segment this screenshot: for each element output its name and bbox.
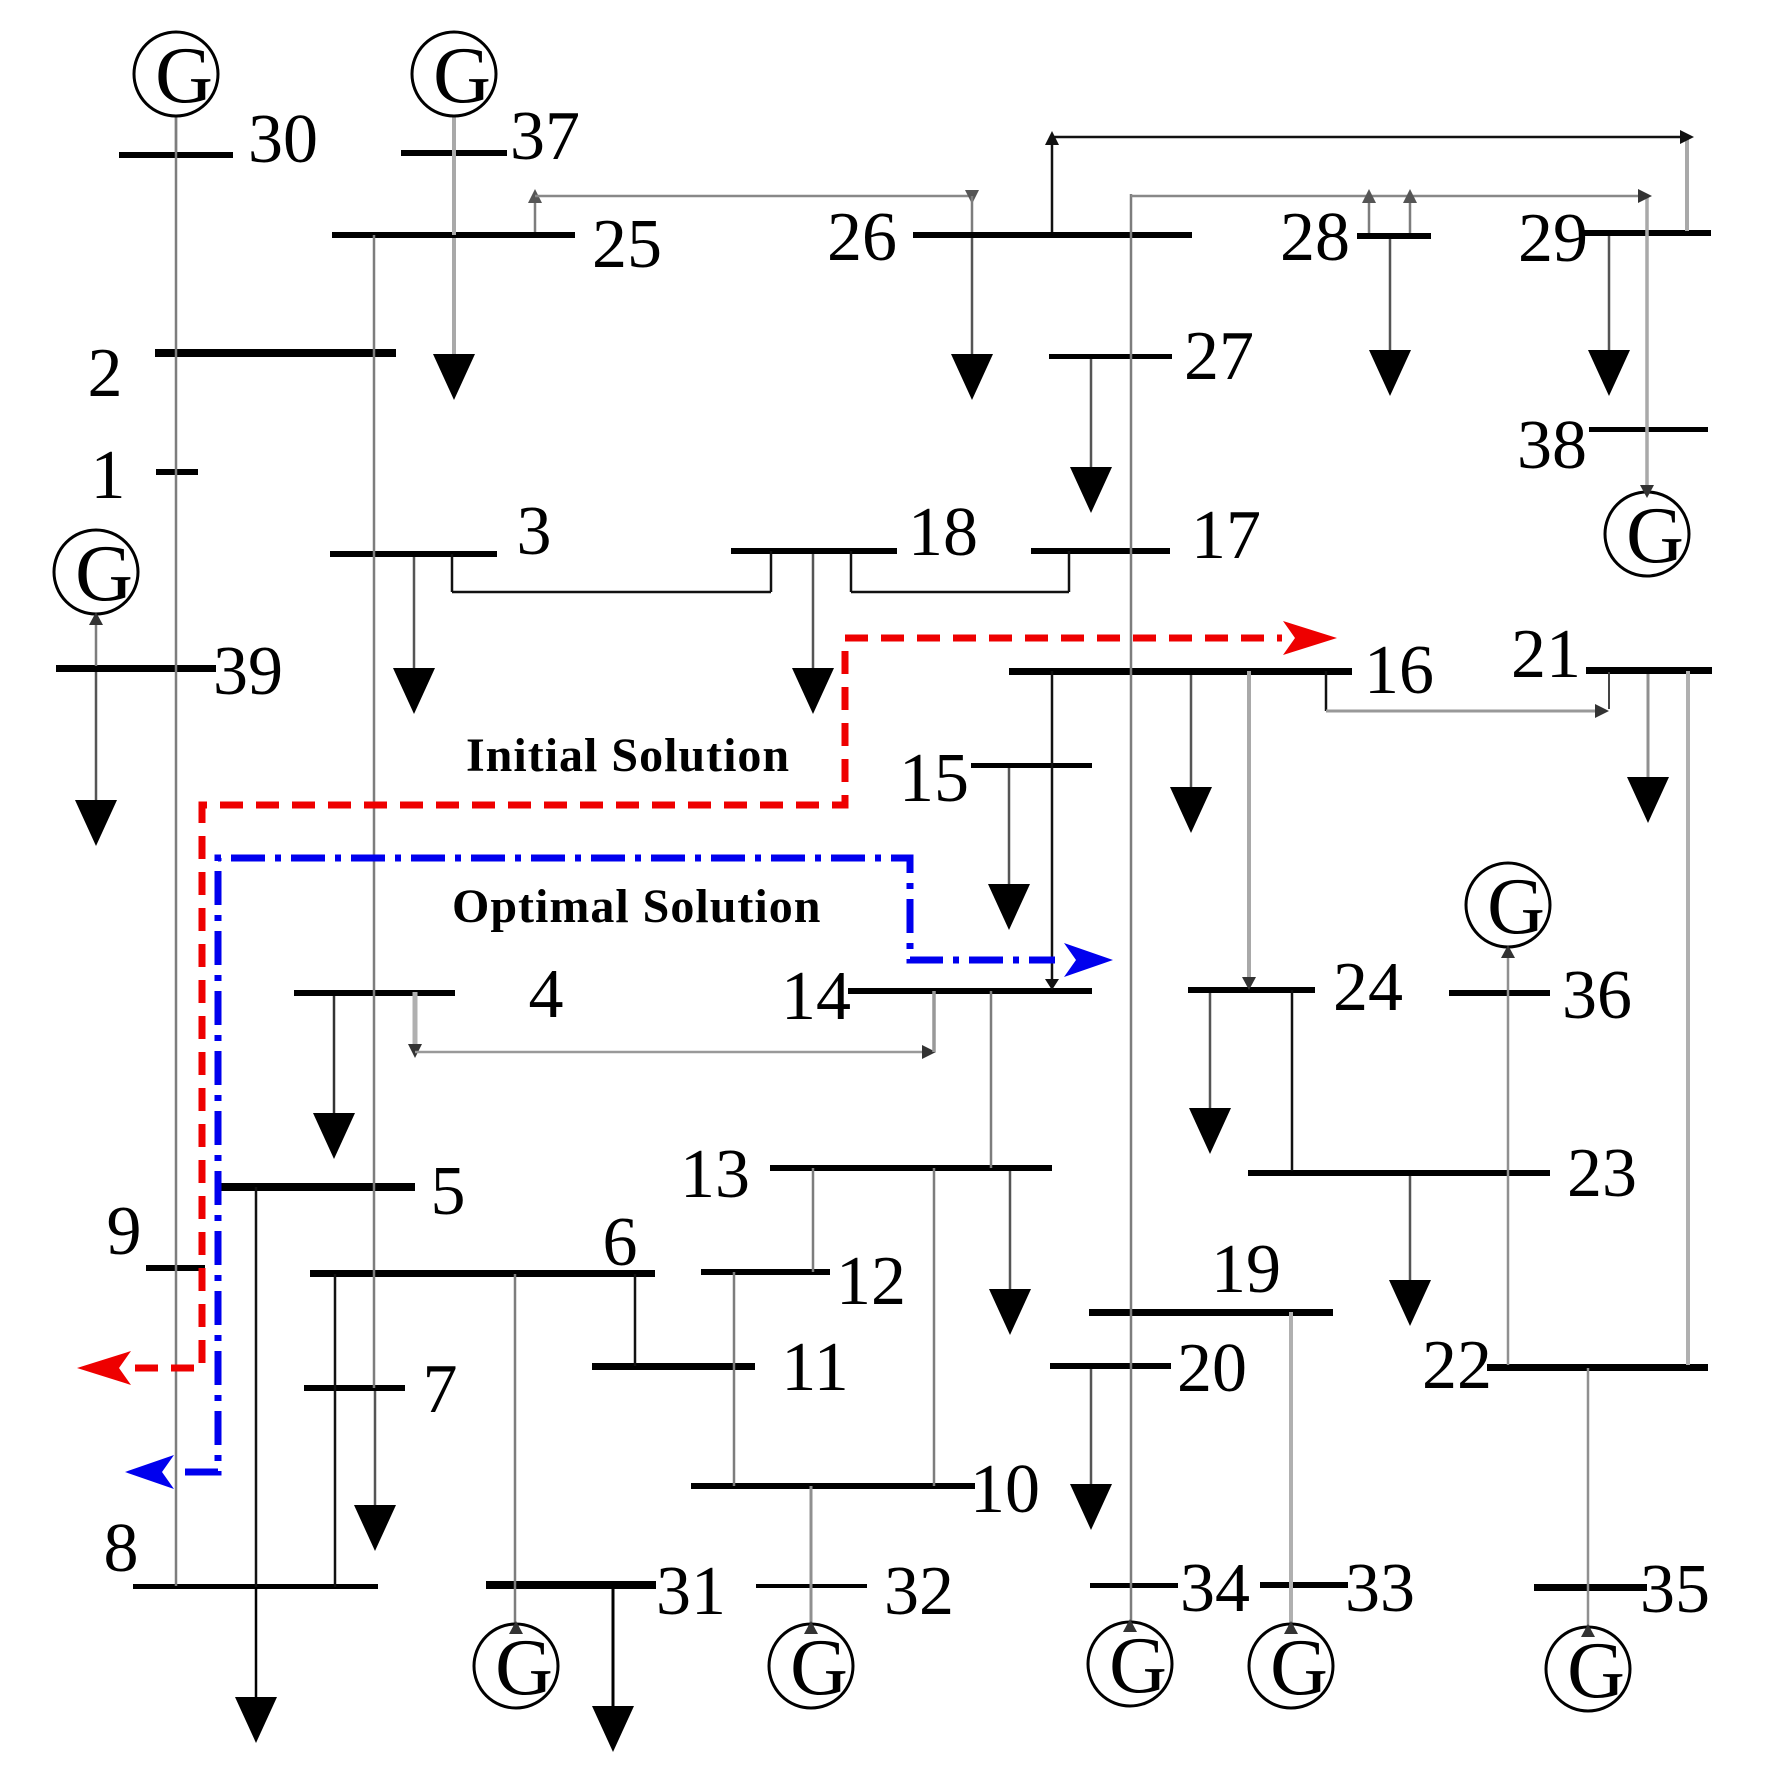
arrow 25-26 stub top (528, 189, 542, 203)
bus 36 (1449, 957, 1632, 1034)
load at bus 27 (1070, 359, 1112, 513)
svg-text:6: 6 (603, 1204, 638, 1281)
svg-text:36: 36 (1562, 957, 1632, 1034)
arrow 28-29 right end (1638, 189, 1652, 203)
bus 34 (1090, 1550, 1250, 1627)
svg-text:2: 2 (88, 335, 123, 412)
wire 16-15-14 vertical (1051, 671, 1054, 984)
svg-text:4: 4 (529, 956, 564, 1033)
svg-text:7: 7 (423, 1351, 458, 1428)
svg-text:G: G (1626, 492, 1684, 580)
svg-text:18: 18 (908, 494, 978, 571)
wire 4-14 horizontal (415, 1051, 928, 1054)
svg-text:10: 10 (970, 1451, 1040, 1528)
wire 25-26 stub up from bus 25 (534, 197, 537, 232)
arrow 26-28 stub top (1362, 189, 1376, 203)
svg-text:G: G (1270, 1624, 1328, 1712)
svg-text:8: 8 (104, 1510, 139, 1587)
wire 6-31 vertical (514, 1274, 517, 1624)
load at bus 16 (1170, 675, 1212, 833)
bus 6 (310, 1204, 655, 1281)
load at bus 15 (988, 768, 1030, 930)
wire corner-29-38-G38 vertical (1645, 196, 1649, 492)
bus 33 (1260, 1550, 1415, 1627)
svg-text:23: 23 (1567, 1135, 1637, 1212)
svg-text:G: G (155, 32, 213, 120)
generator G at bus 35 (1546, 1624, 1630, 1715)
bus 35 (1534, 1551, 1710, 1628)
load at bus 25 (433, 238, 475, 400)
wire 26-27-17-16-19-20-34 long vertical (1130, 194, 1133, 1622)
bus 18 (731, 494, 978, 571)
svg-text:32: 32 (884, 1553, 954, 1630)
svg-text:3: 3 (517, 493, 552, 570)
load at bus 20 (1070, 1369, 1112, 1530)
wire G39-39 vertical (95, 614, 98, 666)
load at bus 21 (1627, 674, 1669, 823)
svg-text:27: 27 (1184, 318, 1254, 395)
bus 21 (1511, 616, 1712, 693)
wire 3-18 riser at bus 3 (451, 554, 454, 592)
svg-text:38: 38 (1517, 407, 1587, 484)
load at bus 23 (1389, 1176, 1431, 1326)
load at bus 8 (235, 1589, 277, 1743)
arrow end 15-14 onto bus 14 (1045, 979, 1059, 990)
wire 14-13 vertical (990, 991, 993, 1168)
wire 26-28 stub onto bus 28 (1368, 196, 1371, 233)
load at bus 4 (313, 996, 355, 1159)
generator G at bus 38 (1605, 485, 1689, 580)
svg-text:24: 24 (1333, 949, 1403, 1026)
generator G at bus 34 (1088, 1619, 1172, 1710)
wire G37-37-25 vertical (452, 116, 456, 235)
bus 5 (217, 1153, 466, 1230)
svg-text:20: 20 (1177, 1330, 1247, 1407)
bus 37 (401, 98, 580, 175)
bus 30 (119, 101, 318, 178)
bus 11 (592, 1329, 849, 1406)
arrow 26-29 right end (1680, 130, 1694, 144)
initial solution red arrow left (77, 1351, 131, 1385)
bus 14 (781, 958, 1092, 1035)
generator G at bus 39 (54, 530, 138, 625)
bus 24 (1188, 949, 1403, 1026)
svg-text:G: G (433, 32, 491, 120)
load at bus 18 (792, 554, 834, 714)
bus 2 (88, 335, 397, 412)
wire G30-30-2-1-39-9-8 vertical (175, 116, 178, 1586)
bus 19 (1089, 1231, 1333, 1316)
wire 22-35-G35 vertical (1587, 1368, 1590, 1628)
load at bus 3 (393, 557, 435, 714)
wire 10-32-G32 vertical (810, 1486, 813, 1626)
svg-text:5: 5 (431, 1153, 466, 1230)
bus 20 (1050, 1330, 1247, 1407)
svg-text:1: 1 (91, 437, 126, 514)
svg-text:30: 30 (248, 101, 318, 178)
svg-text:G: G (1109, 1622, 1167, 1710)
load at bus 29 (1588, 236, 1630, 396)
svg-text:13: 13 (680, 1136, 750, 1213)
bus 10 (691, 1451, 1040, 1528)
wire 16-21 horizontal (1326, 710, 1600, 713)
bus 26 (827, 199, 1192, 276)
arrow 26-29 stub top (1045, 131, 1059, 145)
wire 28-29 stub up from bus 28 (1409, 196, 1412, 233)
wire 21 stub down to 16-21 line (1608, 672, 1610, 709)
load at bus 31 (592, 1589, 634, 1752)
wire 3-18 riser at bus 18 (770, 551, 773, 592)
wire 6-7-8 vertical (334, 1274, 337, 1587)
bus 31 (486, 1553, 726, 1630)
svg-text:G: G (790, 1624, 848, 1712)
load at bus 13 (989, 1171, 1031, 1335)
svg-text:G: G (1487, 863, 1545, 951)
wire 26-29 stub up from bus 26 (1051, 137, 1054, 232)
bus 23 (1248, 1135, 1637, 1212)
generator G at bus 31 (474, 1621, 558, 1712)
svg-text:34: 34 (1180, 1550, 1250, 1627)
svg-text:9: 9 (107, 1193, 142, 1270)
svg-text:37: 37 (510, 98, 580, 175)
bus 27 (1049, 318, 1254, 395)
generator G at bus 37 (412, 32, 496, 120)
bus 22 (1422, 1327, 1708, 1404)
wire 13-10 vertical (933, 1168, 936, 1486)
svg-text:11: 11 (781, 1329, 848, 1406)
wire 5-8 vertical (255, 1187, 258, 1587)
wire 13-12 vertical (812, 1168, 815, 1272)
svg-text:29: 29 (1518, 200, 1588, 277)
svg-text:25: 25 (592, 206, 662, 283)
svg-text:G: G (495, 1624, 553, 1712)
wire 18-17 horizontal (851, 591, 1069, 594)
bus 8 (104, 1510, 379, 1589)
svg-text:26: 26 (827, 199, 897, 276)
wire 12-11-10 vertical (733, 1272, 736, 1486)
arrow 28-29 stub top (1403, 189, 1417, 203)
bus 29 (1518, 200, 1711, 277)
initial solution red dashed path (135, 638, 1282, 1368)
svg-text:14: 14 (781, 958, 851, 1035)
svg-text:G: G (1567, 1627, 1625, 1715)
svg-text:22: 22 (1422, 1327, 1492, 1404)
bus 3 (330, 493, 552, 570)
bus 9 (107, 1193, 206, 1271)
arrow 25-26 end at bus 26 drop (965, 190, 979, 204)
wire 25-26 drop to bus 26 (971, 196, 974, 232)
wire 26-29 corner vertical (1685, 137, 1689, 231)
load at bus 39 (75, 672, 117, 846)
svg-text:Initial Solution: Initial Solution (466, 729, 790, 782)
svg-text:19: 19 (1211, 1231, 1281, 1308)
initial solution red arrow right (1283, 621, 1337, 655)
svg-text:28: 28 (1280, 199, 1350, 276)
bus 16 (1009, 632, 1434, 709)
wire 3-18 horizontal (452, 591, 771, 594)
wire 18-17 riser at bus 17 (1068, 551, 1071, 592)
wire 4-14 riser at bus 4 (413, 992, 418, 1050)
svg-text:Optimal Solution: Optimal Solution (452, 880, 821, 933)
wire 18-17 riser at bus 18 (850, 551, 853, 592)
bus 25 (332, 206, 662, 283)
optimal solution blue arrow right (1064, 943, 1113, 977)
svg-text:39: 39 (213, 633, 283, 710)
bus 39 (56, 633, 283, 710)
svg-text:17: 17 (1191, 497, 1261, 574)
bus 13 (680, 1136, 1052, 1213)
generator G at bus 32 (769, 1621, 853, 1712)
svg-text:21: 21 (1511, 616, 1581, 693)
wire 25-26 horizontal (535, 195, 972, 198)
wire 4-14 riser at bus 14 (932, 991, 936, 1052)
bus 38 (1517, 407, 1708, 484)
bus 1 (91, 437, 199, 514)
load at bus 7 (354, 1391, 396, 1551)
load at bus 24 (1189, 993, 1231, 1154)
load at bus 26 (951, 238, 993, 400)
wire 26-28 28-29 horizontal (1131, 195, 1645, 198)
svg-text:16: 16 (1364, 632, 1434, 709)
svg-text:35: 35 (1640, 1551, 1710, 1628)
optimal solution blue arrow left (125, 1455, 174, 1489)
wire 19-33-G33 vertical (1289, 1312, 1293, 1626)
load at bus 28 (1369, 239, 1411, 396)
arrow end 4-14 at bus 14 (922, 1045, 936, 1059)
wire 24-23 vertical (1291, 990, 1294, 1171)
wire 26-29 horizontal (1052, 136, 1687, 139)
bus 15 (899, 740, 1092, 817)
arrow end 16-21 (1595, 704, 1609, 718)
bus 28 (1280, 199, 1431, 276)
wire 16-24 vertical (1247, 671, 1251, 985)
bus 17 (1031, 497, 1261, 574)
generator G at bus 30 (134, 32, 218, 152)
bus 7 (304, 1351, 458, 1428)
svg-text:12: 12 (836, 1243, 906, 1320)
wire G36-36-23-22 vertical (1507, 947, 1510, 1365)
wire 21-22 vertical (1686, 671, 1690, 1365)
bus 32 (756, 1553, 954, 1630)
svg-text:33: 33 (1345, 1550, 1415, 1627)
generator G at bus 33 (1249, 1621, 1333, 1712)
wire 6-11 vertical (634, 1274, 637, 1366)
generator G at bus 36 (1466, 863, 1550, 958)
wire 16-21 riser (1325, 671, 1328, 711)
svg-text:G: G (75, 530, 133, 618)
bus 12 (701, 1243, 906, 1320)
arrow end 4-14 at bus 4 riser (408, 1044, 422, 1058)
svg-text:31: 31 (656, 1553, 726, 1630)
optimal solution blue dash-dot path (185, 858, 1055, 1472)
svg-text:15: 15 (899, 740, 969, 817)
wire 25-2-3-4-5-7 vertical (373, 235, 376, 1388)
bus 4 (294, 956, 564, 1033)
arrow end 16-24 onto bus 24 (1242, 977, 1256, 990)
